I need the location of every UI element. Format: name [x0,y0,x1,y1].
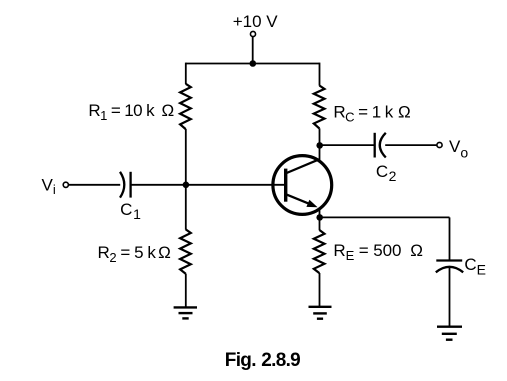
svg-text:R1 = 10 kΩ: R1 = 10 kΩ [88,101,173,123]
wire C2 to Vo [385,144,437,146]
transistor Q1 emitter arrow [306,200,317,208]
wire RE to ground [319,273,321,307]
ground left [174,307,197,318]
svg-text:Vo: Vo [449,137,468,161]
transistor Q1 base bar [284,169,287,202]
resistor R1 [180,84,191,129]
svg-text:C1: C1 [120,200,141,222]
wire left branch lower [185,274,187,308]
node +10V supply terminal [250,31,255,36]
capacitor CE [436,261,463,273]
junction emitter node dot [316,214,323,221]
resistor R2 [180,229,191,273]
wire right branch top [319,63,321,86]
wire emitter to CE [320,216,450,218]
wire RC to collector [319,128,321,160]
svg-text:C2: C2 [376,162,397,184]
resistor RE [314,230,325,273]
resistor RC [314,86,325,129]
wire collector to C2 [320,144,375,146]
node Vi input terminal [63,182,68,187]
node Vo output terminal [437,142,442,147]
ground RE [309,307,332,319]
svg-text:RE = 500Ω: RE = 500Ω [333,241,423,263]
ground CE [437,327,462,340]
junction base node dot [183,182,190,189]
capacitor C2 [375,133,386,158]
svg-text:Fig.2.8.9: Fig.2.8.9 [225,350,300,371]
junction collector node dot [316,142,323,149]
wire left branch middle [185,129,187,230]
transistor Q1 collector line [286,159,320,173]
wire top horizontal [186,63,320,65]
wire C1 to base [131,184,286,186]
transistor Q1 circle [273,156,332,215]
junction supply dot [250,60,257,67]
svg-text:CE: CE [464,255,486,278]
svg-text:+10 V: +10 V [233,12,279,31]
wire CE to ground [449,268,451,327]
svg-text:Vi: Vi [42,175,56,197]
wire input to C1 [68,184,120,186]
wire emitter to junction [319,210,321,231]
svg-text:R2 = 5 kΩ: R2 = 5 kΩ [98,243,171,265]
wire CE branch upper [449,217,451,260]
capacitor C1 [120,172,131,198]
svg-text:RC = 1 kΩ: RC = 1 kΩ [333,102,410,124]
wire supply vertical [252,37,254,64]
transistor Q1 emitter line [286,194,311,204]
wire left branch upper [185,63,187,84]
